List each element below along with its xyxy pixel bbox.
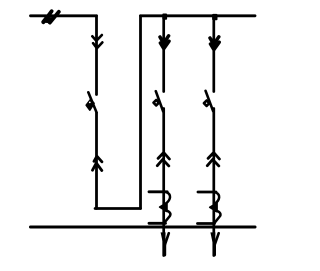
chevron connector (up) on feeder 1 [158,153,169,160]
chevron connector (down) on feeder 2 [210,37,219,45]
breaker CB2 top tick [198,191,216,194]
node: junction dot feeder 2 [212,14,217,20]
switch S1 blade [88,92,96,112]
wire: top bus [141,14,256,17]
switch S3 contact loop [204,101,209,106]
load arrow feeder 2 [210,232,215,245]
breaker CB2 bottom tick [198,222,215,225]
chevron connector (up) on left drop [94,156,102,162]
switch S2 blade [156,91,163,111]
chevron connector (down) on feeder 1 [160,36,169,44]
wire: bottom bus [31,226,256,229]
conductor break double-slash on feeder [43,11,58,22]
chevron connector (down) on left drop [92,35,102,41]
switch S2 contact loop [154,100,159,105]
wire: incoming feeder line (top left) [31,14,97,17]
load arrow feeder 1 [161,232,166,245]
chevron connector (up) on feeder 2 [208,153,219,160]
switch S1 contact blob [86,99,94,110]
wire: U-bottom link [95,207,140,210]
switch S3 blade [206,91,214,111]
wire: feeder 2 vertical [212,16,215,256]
node: junction dot feeder 1 [162,14,167,20]
breaker CB1 top tick [149,190,167,193]
wire: left drop upper segment [95,16,98,95]
breaker CB1 bottom tick [149,222,166,225]
wire: feeder 1 vertical [162,16,165,256]
wire: riser [139,16,142,209]
breaker CB2 coil bumps [215,193,219,204]
wire: left drop lower segment [95,113,98,209]
breaker CB1 coil bumps [166,192,170,203]
